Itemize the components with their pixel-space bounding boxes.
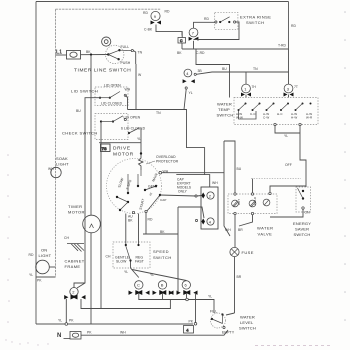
svg-text:SAVER: SAVER xyxy=(295,227,309,232)
water temp switch xyxy=(234,98,318,125)
svg-text:TIMER LINE SWITCH: TIMER LINE SWITCH xyxy=(74,68,131,74)
svg-text:FULL: FULL xyxy=(121,45,130,49)
svg-text:WH: WH xyxy=(125,88,131,92)
drive motor body xyxy=(107,159,162,214)
svg-text:RD: RD xyxy=(291,24,296,28)
junction triangles node 1 xyxy=(241,93,251,97)
wire main left vertical xyxy=(90,55,92,325)
svg-text:RD: RD xyxy=(143,11,148,15)
extra rinse switch xyxy=(215,12,238,29)
svg-text:RD: RD xyxy=(29,253,34,257)
wire speed bus BK xyxy=(143,213,178,234)
wire 7 down to T-BK bus xyxy=(193,41,195,49)
svg-text:CAP: CAP xyxy=(160,198,166,202)
label CAP EXPORT MODELS ONLY xyxy=(177,178,191,194)
timer motor xyxy=(83,215,101,233)
svg-text:C: C xyxy=(180,39,183,43)
wire extra rinse out xyxy=(194,22,240,40)
svg-text:YL: YL xyxy=(124,270,128,274)
wire motor to speed switch xyxy=(126,214,139,245)
svg-text:WATER: WATER xyxy=(217,102,232,107)
svg-text:ON: ON xyxy=(305,211,311,215)
wire valve feeds xyxy=(224,141,306,248)
svg-text:LID SWITCH: LID SWITCH xyxy=(71,89,98,94)
wire bottom neutral bus xyxy=(36,323,193,325)
svg-text:TN: TN xyxy=(138,51,143,55)
motor internal lever xyxy=(120,202,128,210)
wire neutral run xyxy=(81,330,228,335)
wire node4 down to TN run xyxy=(184,89,186,109)
svg-text:PUSH: PUSH xyxy=(121,61,131,65)
junction triangles node 3 xyxy=(284,93,294,97)
wire lower bus xyxy=(139,293,214,313)
junction open water temp bottom xyxy=(274,123,276,125)
junction triangles node 4 xyxy=(183,79,195,83)
svg-text:C: C xyxy=(137,283,140,288)
svg-text:B: B xyxy=(161,283,164,288)
wire RD right drop xyxy=(288,2,290,50)
svg-text:PK: PK xyxy=(87,331,92,335)
line fuse on neutral xyxy=(64,332,82,340)
junction cluster node 6 xyxy=(169,290,198,295)
svg-text:TEMP: TEMP xyxy=(218,107,230,112)
svg-text:PK: PK xyxy=(37,279,42,283)
junction cluster node 2 xyxy=(64,295,85,300)
svg-text:TN: TN xyxy=(253,67,258,71)
svg-text:YL: YL xyxy=(58,319,62,323)
svg-text:H-C: H-C xyxy=(277,112,283,116)
svg-text:SWITCH: SWITCH xyxy=(217,113,234,118)
svg-text:SWITCH: SWITCH xyxy=(246,20,264,25)
svg-text:FRAME: FRAME xyxy=(65,264,81,269)
svg-text:SLOW: SLOW xyxy=(116,260,127,264)
wire check to motor start xyxy=(140,128,142,153)
svg-text:BR: BR xyxy=(238,228,243,232)
svg-text:CHECK SWITCH: CHECK SWITCH xyxy=(62,131,98,136)
overload protector symbol xyxy=(139,153,144,170)
node 1 xyxy=(242,84,251,93)
wire bus T-BK xyxy=(182,48,289,50)
svg-text:BK: BK xyxy=(86,50,91,54)
fuse xyxy=(230,247,239,256)
svg-text:6 LID CLOSED: 6 LID CLOSED xyxy=(121,127,146,131)
svg-text:FAST: FAST xyxy=(135,260,144,264)
node 4 xyxy=(184,69,192,77)
wire check switch left down xyxy=(100,123,102,309)
connector box 2-4 xyxy=(201,187,218,229)
connector C xyxy=(178,38,186,44)
svg-text:MOTOR: MOTOR xyxy=(113,152,134,158)
svg-text:YL: YL xyxy=(189,91,193,95)
junction cluster node C xyxy=(129,290,150,295)
terminal lever 4 xyxy=(195,219,197,221)
terminal below node 4 xyxy=(185,87,187,89)
wire overload pointer xyxy=(146,161,155,164)
connector 4 bottom xyxy=(184,326,194,334)
junction open lower bus xyxy=(186,298,189,301)
svg-text:7H: 7H xyxy=(252,85,257,89)
svg-text:BR: BR xyxy=(237,275,242,279)
check switch xyxy=(95,114,146,140)
timer cam circle xyxy=(102,37,111,46)
svg-text:SWITCH: SWITCH xyxy=(294,232,311,237)
plug L1 xyxy=(67,51,81,60)
svg-text:WATER: WATER xyxy=(257,226,274,231)
node 6 xyxy=(182,281,190,289)
svg-text:PROTECTOR: PROTECTOR xyxy=(156,160,179,164)
svg-text:OVERLOAD: OVERLOAD xyxy=(156,155,176,159)
svg-text:GENT: GENT xyxy=(148,185,158,189)
on light xyxy=(36,260,50,274)
svg-text:C-RD: C-RD xyxy=(196,51,205,55)
svg-text:LIGHT: LIGHT xyxy=(56,162,69,167)
timer line switch xyxy=(106,45,134,65)
node 2 xyxy=(70,288,78,296)
svg-text:SWITCH: SWITCH xyxy=(153,255,172,260)
wire T-BK drop to water temp xyxy=(196,49,230,98)
svg-text:BK: BK xyxy=(128,219,133,223)
svg-text:WATER: WATER xyxy=(240,315,255,320)
wire energy saver out xyxy=(270,209,303,217)
node 9 xyxy=(151,11,160,20)
svg-text:BU: BU xyxy=(222,67,227,71)
svg-text:FUSE: FUSE xyxy=(242,250,254,255)
svg-text:WH: WH xyxy=(212,181,218,185)
wire on-light loop bottom xyxy=(36,276,56,278)
junction cluster node B xyxy=(153,290,174,295)
svg-text:TN: TN xyxy=(156,111,161,115)
wire inner frame top xyxy=(56,8,162,10)
svg-text:LID OPEN: LID OPEN xyxy=(104,84,121,88)
svg-text:WH: WH xyxy=(120,331,126,335)
dotted scan marks right xyxy=(344,11,346,321)
svg-text:BU: BU xyxy=(76,109,81,113)
svg-text:TIMER: TIMER xyxy=(68,204,82,209)
svg-text:H-W: H-W xyxy=(291,116,297,120)
svg-text:YL: YL xyxy=(284,134,288,138)
dotted scan marks bottom xyxy=(255,345,333,347)
svg-text:W-R: W-R xyxy=(306,116,313,120)
svg-text:3B: 3B xyxy=(198,69,203,73)
svg-text:SWITCH: SWITCH xyxy=(239,326,256,331)
wire node6 right drop to bottom bus xyxy=(195,293,197,324)
soak light xyxy=(51,167,61,177)
junction triangles below 9 xyxy=(151,21,162,25)
wire BU run to water temp xyxy=(196,49,288,84)
svg-text:BU: BU xyxy=(237,167,242,171)
wire 9 to C-BK run xyxy=(156,25,182,38)
wire 7 up to extra rinse switch xyxy=(194,22,216,28)
energy saver switch xyxy=(296,187,311,212)
svg-text:SOAK: SOAK xyxy=(56,156,68,161)
junction motor top xyxy=(140,152,142,154)
wire timer switch down to TN run xyxy=(135,64,137,110)
wire lower lever run xyxy=(178,207,204,292)
node C xyxy=(135,281,143,289)
wire switch out right xyxy=(133,51,135,64)
wire node1 node3 stems xyxy=(246,95,289,98)
svg-text:CH: CH xyxy=(64,236,69,240)
wire lid switch left down xyxy=(77,98,100,288)
svg-text:YL: YL xyxy=(208,295,212,299)
svg-text:LEVEL: LEVEL xyxy=(240,320,254,325)
motor top frame xyxy=(99,142,141,144)
dotted scan marks left xyxy=(5,154,48,345)
junction open on bus xyxy=(65,323,68,326)
svg-text:T-RD: T-RD xyxy=(278,44,286,48)
wire dashed alt run xyxy=(251,178,301,180)
junction open bottom bus xyxy=(194,323,197,326)
wire fuse down xyxy=(234,257,236,313)
svg-text:EMPTY: EMPTY xyxy=(222,331,235,335)
junction L1 branch xyxy=(90,53,92,55)
svg-text:C-W: C-W xyxy=(263,116,269,120)
svg-text:RD: RD xyxy=(204,17,209,21)
svg-text:FILL: FILL xyxy=(210,310,217,314)
svg-text:LID CLOSED: LID CLOSED xyxy=(101,102,123,106)
svg-text:ONLY: ONLY xyxy=(178,190,188,194)
svg-text:BK: BK xyxy=(160,230,165,234)
svg-text:C-BK: C-BK xyxy=(144,28,153,32)
svg-text:PK: PK xyxy=(69,319,74,323)
svg-text:WH: WH xyxy=(225,228,231,232)
motor right terminal xyxy=(159,171,162,174)
motor internal dot xyxy=(119,209,121,211)
svg-text:ON: ON xyxy=(41,248,47,253)
svg-text:MOTOR: MOTOR xyxy=(68,210,85,215)
svg-text:CABINET: CABINET xyxy=(65,259,85,264)
wire C down to T-BK bus xyxy=(181,32,183,49)
ground cabinet frame xyxy=(67,244,84,252)
wire TN run to cap box xyxy=(125,95,209,187)
motor internal contacts xyxy=(116,185,161,203)
svg-text:PK: PK xyxy=(189,320,194,324)
svg-text:DRIVE: DRIVE xyxy=(113,146,131,152)
svg-text:COLD: COLD xyxy=(253,197,257,205)
svg-text:7T: 7T xyxy=(294,85,298,89)
svg-text:C-C: C-C xyxy=(250,112,256,116)
svg-text:N: N xyxy=(57,333,61,339)
terminal lever 2 xyxy=(195,195,197,197)
svg-text:WH: WH xyxy=(48,167,54,171)
svg-text:BK: BK xyxy=(177,51,182,55)
wire fuse to water level xyxy=(226,313,235,315)
svg-text:VALVE: VALVE xyxy=(258,232,273,237)
svg-text:W-W: W-W xyxy=(236,116,243,120)
svg-text:RD: RD xyxy=(148,218,153,222)
node B xyxy=(158,281,166,289)
wire outer border left (L1 feed) xyxy=(35,2,37,325)
junction open water temp bottom2 xyxy=(299,123,301,125)
svg-text:OFF: OFF xyxy=(285,163,292,167)
water valve xyxy=(228,192,277,214)
node 7 xyxy=(189,28,198,37)
motor internal terminals xyxy=(132,210,147,213)
svg-text:HOT: HOT xyxy=(237,199,241,205)
water level switch xyxy=(211,313,226,329)
svg-text:ENERGY: ENERGY xyxy=(293,221,311,226)
svg-text:78: 78 xyxy=(102,146,107,151)
wire motor main to box lever xyxy=(160,195,202,196)
speed switch xyxy=(113,242,150,268)
svg-text:LIGHT: LIGHT xyxy=(39,253,52,258)
svg-text:RD: RD xyxy=(165,10,170,14)
motor internal start winding xyxy=(117,170,160,211)
wire outer border top xyxy=(36,1,289,3)
wire inner frame left xyxy=(55,9,57,277)
wire L1 to timer line switch xyxy=(56,54,109,57)
node 3 xyxy=(284,84,293,93)
wire speed out diagonal xyxy=(131,262,187,281)
svg-text:YL: YL xyxy=(150,273,154,277)
svg-text:SPEED: SPEED xyxy=(153,249,169,254)
wire motor WH to valve column xyxy=(162,172,224,174)
wire node2 drop to bus xyxy=(66,283,170,324)
wire water temp outputs xyxy=(275,125,306,188)
junction triangles below 7 xyxy=(189,37,199,41)
lid switch xyxy=(95,84,128,106)
drive motor label box 78 xyxy=(101,144,111,152)
wire on light to inner frame xyxy=(49,266,55,268)
svg-text:YL: YL xyxy=(29,273,33,277)
terminal right of node 4 xyxy=(194,73,196,75)
svg-text:CH: CH xyxy=(106,255,111,259)
svg-text:EXTRA RINSE: EXTRA RINSE xyxy=(240,15,271,20)
